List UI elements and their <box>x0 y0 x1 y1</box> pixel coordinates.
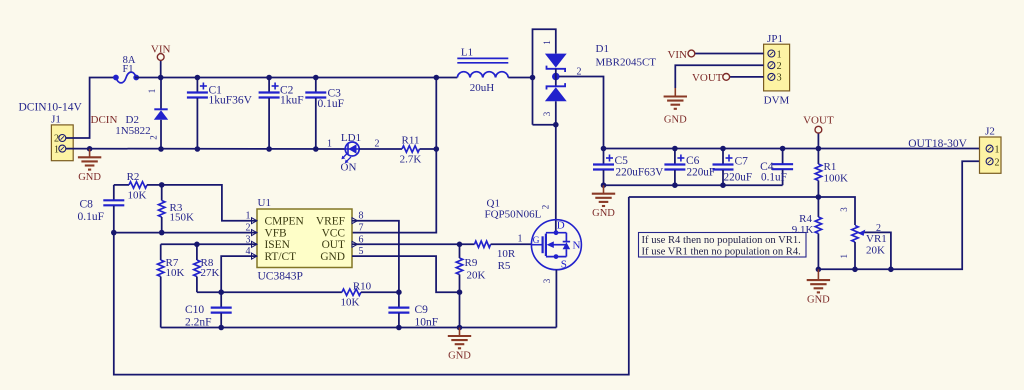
resistor R8 27K <box>194 244 220 292</box>
wire ground rail <box>66 146 345 152</box>
wire R11 to VCC node <box>420 146 440 152</box>
svg-text:1N5822: 1N5822 <box>115 125 150 137</box>
wire VIN rail <box>135 75 457 81</box>
svg-text:DVM: DVM <box>764 95 790 107</box>
svg-text:1: 1 <box>54 144 59 155</box>
svg-text:GND: GND <box>448 351 471 362</box>
wire D1 pin 3 to Q1 drain <box>533 122 559 232</box>
svg-text:2: 2 <box>777 61 782 72</box>
svg-text:C10: C10 <box>185 304 204 316</box>
resistor R3 150K <box>159 185 195 233</box>
svg-text:220uF: 220uF <box>724 172 753 184</box>
svg-text:G: G <box>533 236 540 246</box>
svg-text:VREF: VREF <box>316 216 345 228</box>
svg-text:10K: 10K <box>128 190 147 202</box>
svg-text:2: 2 <box>54 134 59 145</box>
svg-text:C8: C8 <box>80 199 94 211</box>
svg-text:If use VR1 then no population: If use VR1 then no population on R4. <box>642 246 801 257</box>
wire L1 to D1 node <box>508 75 535 81</box>
svg-text:R5: R5 <box>498 260 511 272</box>
wire JP1 pin 2 to ground <box>675 65 763 88</box>
net label VIN <box>151 44 171 78</box>
svg-text:1: 1 <box>542 40 552 45</box>
wire U1 pin 4 RT/CT <box>218 256 257 295</box>
wire ISEN line to U1 pin 3 <box>161 242 257 248</box>
inductor L1 20uH <box>457 46 508 94</box>
svg-text:3: 3 <box>542 111 552 116</box>
LED LD1 <box>327 132 380 174</box>
svg-text:150K: 150K <box>170 212 195 224</box>
svg-text:20K: 20K <box>467 270 486 282</box>
svg-text:VIN: VIN <box>667 49 687 61</box>
svg-text:7: 7 <box>359 223 364 234</box>
svg-text:3: 3 <box>839 207 849 212</box>
wire capacitor ground rail <box>601 182 783 188</box>
svg-text:1: 1 <box>327 139 332 150</box>
svg-text:10nF: 10nF <box>415 316 439 328</box>
wire J1 pin2 to fuse F1 <box>66 78 114 139</box>
svg-text:GND: GND <box>807 295 830 306</box>
svg-text:VR1: VR1 <box>866 233 887 245</box>
svg-text:0.1uF: 0.1uF <box>761 172 787 184</box>
svg-text:0.1uF: 0.1uF <box>78 211 105 223</box>
svg-text:100K: 100K <box>824 173 849 185</box>
capacitor C6 220uF <box>664 149 715 186</box>
transistor Q1 FQP50N06L <box>485 198 582 284</box>
svg-text:R11: R11 <box>402 135 420 147</box>
svg-text:If use R4 then no population o: If use R4 then no population on VR1. <box>642 235 801 246</box>
svg-text:2.2nF: 2.2nF <box>185 316 212 328</box>
net label VOUT at JP1 <box>692 72 764 84</box>
diode D2 1N5822 <box>115 78 168 150</box>
wire output rail VOUT <box>601 146 986 152</box>
svg-text:VCC: VCC <box>322 227 345 239</box>
svg-text:GND: GND <box>592 208 615 219</box>
net label VIN at JP1 <box>667 49 763 61</box>
svg-text:1: 1 <box>518 234 523 245</box>
wire R2 node to U1 pin 1 CMPEN <box>159 182 257 221</box>
capacitor C4 0.1uF <box>760 149 793 186</box>
svg-text:220uF: 220uF <box>687 167 716 179</box>
svg-text:2: 2 <box>995 157 1000 168</box>
svg-text:MBR2045CT: MBR2045CT <box>596 57 657 69</box>
wire RT/CT row <box>197 291 342 293</box>
resistor R7 10K <box>158 244 185 327</box>
capacitor C2 1kuF <box>259 78 304 150</box>
capacitor C7 220uF <box>713 149 753 186</box>
svg-text:D1: D1 <box>596 43 609 55</box>
resistor R10 10K <box>341 281 399 309</box>
op-amp U1 UC3843P <box>246 197 364 283</box>
wire U1 pin 6 OUT to gate <box>352 242 475 248</box>
connector J2 <box>980 126 1002 174</box>
capacitor C10 2.2nF <box>185 292 232 328</box>
potentiometer VR1 20K <box>839 207 891 270</box>
wire U1 pin 8 VREF to R10/C9 <box>352 221 402 295</box>
svg-text:1: 1 <box>839 254 849 259</box>
wire VFB line to U1 pin 2 <box>111 230 257 236</box>
svg-text:J2: J2 <box>985 126 995 138</box>
svg-text:C6: C6 <box>686 155 700 167</box>
svg-text:2: 2 <box>541 205 551 210</box>
svg-text:F1: F1 <box>122 64 133 75</box>
capacitor C3 0.1uF <box>305 78 344 150</box>
ground at R4 <box>807 269 830 305</box>
ground at JP1 <box>664 88 687 126</box>
svg-text:FQP50N06L: FQP50N06L <box>485 209 542 221</box>
resistor R9 20K <box>456 244 485 327</box>
resistor R2 10K <box>114 171 162 202</box>
svg-text:27K: 27K <box>201 267 220 279</box>
svg-text:D: D <box>557 220 565 232</box>
wire D1 pin 2 to output rail <box>559 77 603 149</box>
ground at controller rail <box>448 328 471 362</box>
connector JP1 <box>764 33 790 107</box>
wire VIN rail down to U1 VCC pin 7 <box>352 78 436 233</box>
wire feedback loop <box>114 197 629 375</box>
svg-text:VIN: VIN <box>151 44 171 56</box>
resistor R11 2.7K <box>400 135 422 166</box>
svg-text:ISEN: ISEN <box>265 239 290 251</box>
svg-text:20K: 20K <box>866 245 885 257</box>
svg-text:VFB: VFB <box>265 227 288 239</box>
wire LED to R11 <box>359 148 402 150</box>
svg-text:0.1uF: 0.1uF <box>318 98 345 110</box>
svg-text:VOUT: VOUT <box>692 72 723 84</box>
resistor R4 9.1K <box>792 197 822 269</box>
svg-text:CMPEN: CMPEN <box>265 216 304 228</box>
svg-text:2: 2 <box>375 139 380 150</box>
svg-text:10K: 10K <box>166 267 185 279</box>
wire controller ground rail <box>161 325 557 331</box>
svg-text:VOUT: VOUT <box>803 115 834 127</box>
svg-text:OUT: OUT <box>322 239 345 251</box>
svg-text:2.7K: 2.7K <box>400 154 422 166</box>
wire Q1 source to ground rail <box>555 270 557 328</box>
svg-text:ON: ON <box>341 161 357 173</box>
diode D1 MBR2045CT <box>533 29 657 124</box>
capacitor C5 220uF63V <box>593 149 663 186</box>
svg-text:RT/CT: RT/CT <box>265 251 297 263</box>
svg-text:10K: 10K <box>341 297 360 309</box>
wire R4/VR1 bottom to J2 pin 2 <box>816 161 986 272</box>
wire node to VR1 pin 3 <box>818 197 855 225</box>
svg-text:R9: R9 <box>465 257 478 269</box>
wire feedback R1/R4 node <box>629 194 821 200</box>
svg-text:GND: GND <box>664 115 687 126</box>
svg-text:R1: R1 <box>824 161 837 173</box>
resistor R1 100K <box>815 149 848 198</box>
svg-text:1: 1 <box>995 145 1000 156</box>
svg-text:1: 1 <box>147 89 157 94</box>
capacitor C8 0.1uF <box>78 185 125 233</box>
svg-text:LD1: LD1 <box>341 132 361 144</box>
svg-text:JP1: JP1 <box>767 33 783 45</box>
svg-text:1kuF36V: 1kuF36V <box>209 95 253 107</box>
connector J1 <box>19 102 83 161</box>
svg-text:UC3843P: UC3843P <box>258 271 303 283</box>
svg-text:GND: GND <box>78 172 101 183</box>
svg-text:S: S <box>561 259 567 271</box>
svg-text:C7: C7 <box>735 156 749 168</box>
svg-text:3: 3 <box>542 278 552 283</box>
fuse F1 <box>113 55 139 83</box>
svg-text:DCIN10-14V: DCIN10-14V <box>19 102 83 114</box>
svg-text:R10: R10 <box>353 281 372 293</box>
svg-text:GND: GND <box>320 251 345 263</box>
wire U1 pin 5 GND <box>352 256 462 295</box>
svg-text:220uF63V: 220uF63V <box>616 167 664 179</box>
svg-text:3: 3 <box>777 73 782 84</box>
svg-text:C5: C5 <box>615 155 629 167</box>
svg-text:N: N <box>573 240 581 252</box>
svg-text:U1: U1 <box>258 197 271 209</box>
svg-text:R2: R2 <box>127 171 140 183</box>
svg-text:1kuF: 1kuF <box>280 95 304 107</box>
svg-text:J1: J1 <box>51 114 61 126</box>
svg-text:1: 1 <box>777 49 782 60</box>
ground at J1 <box>78 149 101 183</box>
ground at C5 <box>592 185 615 219</box>
net label VOUT <box>803 115 834 149</box>
resistor R5 10R <box>475 234 532 273</box>
svg-text:20uH: 20uH <box>470 82 495 94</box>
svg-text:DCIN: DCIN <box>91 114 118 126</box>
capacitor C9 10nF <box>388 292 438 328</box>
svg-text:10R: 10R <box>497 248 516 260</box>
svg-text:C9: C9 <box>415 304 429 316</box>
capacitor C1 1kuF36V <box>187 78 253 150</box>
svg-text:OUT18-30V: OUT18-30V <box>908 138 967 150</box>
note text box <box>639 233 807 258</box>
svg-text:L1: L1 <box>461 46 473 58</box>
